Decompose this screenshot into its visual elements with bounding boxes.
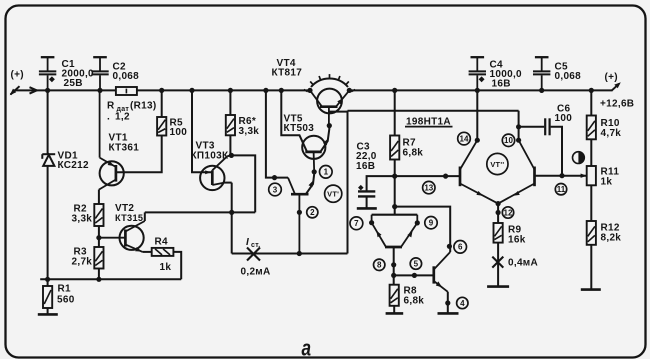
svg-text:VT': VT' (327, 190, 339, 199)
transistor VT1 KT361 (PNP) (100, 161, 124, 185)
svg-text:(+): (+) (605, 72, 618, 83)
node: IC pin 11 terminal dot / C6 junction (559, 173, 564, 178)
wire: control node vertical to Ist line (347, 111, 349, 254)
node: IC pin 3 terminal dot (272, 175, 277, 180)
wire: bottom negative rail (40, 278, 181, 280)
pin number 4 (457, 297, 468, 308)
svg-text:13: 13 (424, 183, 433, 192)
wire: VT4 base branch to control node (329, 111, 348, 113)
transistor VT-prime of 198NT1A (pins 1,2,3) (291, 193, 309, 196)
node: rail junction R7 (392, 88, 397, 93)
svg-text:6: 6 (458, 243, 463, 252)
label VT-double-prime in circle (487, 153, 508, 174)
transistor pair VT-double-prime right (pin 10 collector) (533, 167, 536, 187)
wire: VT1 base to R5 (116, 136, 162, 173)
svg-text:I: I (246, 237, 249, 248)
node: IC pin 2 terminal dot (297, 210, 302, 215)
transistor VT2 KT315 (NPN) (120, 226, 144, 250)
capacitor C6 100 (519, 126, 545, 128)
node: rail junction pin3 line (263, 88, 268, 93)
current direction arrowhead on input wire (30, 87, 37, 93)
node: junction VT5 emitter / VT4 base (327, 123, 332, 128)
node: junction C6 left lead (516, 124, 521, 129)
svg-text:560: 560 (57, 295, 75, 306)
wire: pair emitter stem to R8 (393, 247, 395, 285)
node: IC pin 8 terminal dot (391, 262, 396, 267)
svg-text:2: 2 (310, 208, 315, 217)
svg-text:1k: 1k (601, 177, 613, 188)
wire: right pair base to R11 wiper (535, 175, 587, 177)
svg-text:11: 11 (557, 185, 566, 194)
svg-text:1,2: 1,2 (115, 112, 130, 123)
node: rail junction C2/VT1 emitter (97, 88, 102, 93)
svg-text:КТ817: КТ817 (272, 68, 303, 79)
svg-text:16k: 16k (508, 235, 526, 246)
wire: VT3 drain down to Ist line (231, 183, 233, 254)
svg-text:0,068: 0,068 (555, 71, 582, 82)
node: rail junction R6 (228, 88, 233, 93)
current marker 0,4mA (492, 257, 503, 268)
svg-text:0,068: 0,068 (113, 71, 140, 82)
svg-text:8: 8 (377, 261, 382, 270)
resistor R2 3,3k (94, 204, 103, 226)
node: IC pin 10 terminal dot (516, 138, 521, 143)
svg-text:(R13): (R13) (130, 101, 157, 112)
ground below C3 (357, 207, 377, 210)
pin number 10 (502, 134, 514, 146)
svg-text:КП103К: КП103К (191, 150, 229, 161)
svg-text:9: 9 (429, 219, 434, 228)
transistor of 198NT1A (pins 5,6,4) (432, 266, 435, 283)
pin number 11 (555, 184, 566, 195)
potentiometer R11 1k (587, 166, 596, 185)
pin number 6 (454, 241, 467, 254)
svg-text:6,8k: 6,8k (404, 296, 425, 307)
transistor pair VT-double-prime left (pin 14 collector) (459, 167, 462, 187)
wire: R7 node to pin6 transistor collector (395, 207, 451, 252)
transistor VT5 KT503 (NPN) (302, 136, 325, 159)
capacitor C5 0,068 (541, 75, 543, 90)
node: IC pin 7 terminal dot (369, 220, 374, 225)
svg-text:1k: 1k (160, 262, 172, 273)
svg-text:КС212: КС212 (58, 160, 90, 171)
ground below R9 (487, 285, 509, 288)
svg-text:VT'': VT'' (490, 160, 504, 169)
pin number 14 (458, 132, 471, 145)
svg-text:25В: 25В (64, 78, 83, 89)
ground below R12 (581, 288, 601, 291)
svg-text:16В: 16В (356, 161, 375, 172)
node: rail junction R5 (159, 88, 164, 93)
ground below R8 (386, 312, 404, 315)
wire: VT5 collector from rail (281, 90, 307, 151)
svg-text:8,2k: 8,2k (601, 233, 622, 244)
svg-text:ст.: ст. (251, 242, 261, 249)
svg-text:1: 1 (324, 168, 329, 177)
svg-text:(+): (+) (11, 69, 24, 80)
svg-text:2,7k: 2,7k (72, 257, 93, 268)
svg-text:12: 12 (504, 208, 513, 217)
svg-text:КТ503: КТ503 (284, 123, 315, 134)
pin number 1 (320, 166, 333, 179)
pin number 13 (423, 181, 435, 193)
svg-text:4,7k: 4,7k (601, 128, 622, 139)
resistor R12 8,2k (587, 221, 596, 245)
node: rail start at VT4 emitter (347, 88, 352, 93)
svg-text:.: . (107, 112, 110, 123)
ground below pin 4 (438, 312, 459, 315)
node: IC pin 14 terminal dot (475, 138, 480, 143)
node: emitters junction (496, 201, 501, 206)
wire: pin 5 wire to pin6 transistor base (394, 274, 434, 276)
wire: VT-double-prime common emitter stem (497, 204, 499, 223)
label VT-prime in circle (325, 185, 342, 202)
node: junction R7 line / C3 / base wire (392, 174, 397, 179)
node: IC pin 1 terminal dot (VT5 base) (312, 169, 317, 174)
svg-text:4: 4 (460, 299, 465, 308)
node: junction bottom rail / R1 (45, 277, 50, 282)
resistor R10 4,7k (590, 90, 592, 115)
ground below R1 (38, 313, 58, 316)
wire: control node horizontal to pin 10 line (348, 110, 519, 112)
wire: top rail right segment from VT4 emitter to output (350, 89, 613, 91)
resistor R5 100 (157, 117, 166, 136)
node: junction R7 line branch (392, 204, 397, 209)
wire: VT3 gate from rail (192, 90, 212, 172)
resistor R7 6,8k (394, 90, 396, 135)
capacitor C3 22,0 16V electrolytic (367, 176, 395, 191)
svg-text:7: 7 (354, 219, 359, 228)
resistor R1 560 (47, 279, 49, 286)
svg-text:R4: R4 (155, 237, 169, 248)
svg-text:3,3k: 3,3k (239, 126, 260, 137)
pin number 8 (374, 259, 385, 270)
svg-text:5: 5 (414, 259, 419, 268)
pin number 2 (307, 207, 318, 218)
node: junction R6 / VT3 source (229, 153, 234, 158)
node: IC pin 12 terminal dot (496, 210, 501, 215)
node: junction stem / pin5 wire (391, 273, 396, 278)
wire: pin 3 lead from rail to VT-prime collector (266, 90, 288, 177)
pin number 3 (269, 183, 282, 196)
node: rail junction C4/pin14 line (475, 88, 480, 93)
zener diode VD1 KS212 (47, 90, 49, 154)
pin number 5 (410, 258, 421, 269)
svg-text:6,8k: 6,8k (403, 148, 424, 159)
svg-text:0,2мА: 0,2мА (241, 267, 271, 278)
pin number 9 (425, 217, 437, 229)
half-shaded circle marker (setting point) (573, 152, 585, 164)
wire: R4 to bottom rail (173, 252, 181, 279)
wire: base wire to VT2prime pair (395, 175, 460, 177)
wire: pin 14 line from rail/C4 (476, 90, 478, 140)
capacitor C2 0,068 (99, 75, 101, 90)
node: rail junction VT5 collector line (279, 88, 284, 93)
wire: top rail left segment (after Rdat) to VT4 collector (137, 89, 310, 91)
svg-text:3: 3 (273, 185, 278, 194)
svg-text:0,4мА: 0,4мА (508, 258, 538, 269)
svg-text:10: 10 (504, 136, 513, 145)
resistor R8 6,8k (390, 285, 399, 306)
node: junction drain/VT2 collector wire (229, 210, 234, 215)
transistor VT3 KP103K (JFET) (200, 166, 224, 190)
node: junction R2/R3/VT2 base (96, 235, 101, 240)
node: rail junction VT3 gate line (189, 88, 194, 93)
svg-text:R1: R1 (58, 284, 72, 295)
capacitor C4 1000,0 16V electrolytic (476, 75, 478, 90)
svg-text:100: 100 (555, 113, 573, 124)
svg-text:3,3k: 3,3k (72, 214, 93, 225)
svg-text:a: a (302, 336, 312, 359)
node: rail end at VT4 collector (307, 88, 312, 93)
node: rail junction C5 (539, 88, 544, 93)
node: junction bottom rail / R3 (96, 277, 101, 282)
svg-text:198НТ1А: 198НТ1А (406, 116, 451, 127)
resistor R6* 3,3k (229, 90, 231, 115)
node: junction Ist line / VT-prime base stem (297, 251, 302, 256)
svg-text:КТ315: КТ315 (115, 213, 143, 223)
pin number 7 (350, 217, 363, 230)
wire: input lead to rail (13, 89, 116, 91)
resistor R9 16k (494, 223, 503, 243)
capacitor C1 2000,0 25V electrolytic (47, 75, 49, 90)
node: rail junction R10 (589, 88, 594, 93)
transistor VT4 KT817 (NPN, series pass) (317, 89, 342, 114)
resistor R3 2,7k (94, 247, 103, 269)
node: IC pin 5 terminal dot (412, 273, 417, 278)
node: (+) output terminal +12,6V (612, 84, 620, 91)
node: IC pin 6 terminal dot (447, 244, 452, 249)
svg-text:100: 100 (170, 127, 188, 138)
svg-text:R: R (107, 101, 115, 112)
pin number 12 (502, 207, 513, 218)
svg-text:14: 14 (460, 134, 469, 143)
node: IC pin 9 terminal dot (415, 220, 420, 225)
transistor pair VT-prime of 198NT1A (pins 7,9,8) (372, 214, 418, 216)
node: IC pin 4 terminal dot (445, 300, 450, 305)
svg-text:16В: 16В (492, 79, 511, 90)
svg-text:+12,6В: +12,6В (600, 99, 634, 110)
svg-text:КТ361: КТ361 (109, 142, 140, 153)
node: rail junction C1/VD1 (45, 88, 50, 93)
resistor R4 1k (152, 248, 174, 256)
current source marker Ist 0,2mA (232, 253, 348, 255)
resistor Rdat (R13) 1,2 in series with rail (116, 87, 137, 95)
wire: pin 10 collector line from control node (518, 111, 520, 141)
wire: VT2 collector to VT3 drain node (145, 211, 255, 213)
heatsink arc over VT4 (311, 79, 348, 87)
wire: source node to stabilizer loop (231, 155, 255, 212)
node: IC pin 13 terminal dot (443, 174, 448, 179)
